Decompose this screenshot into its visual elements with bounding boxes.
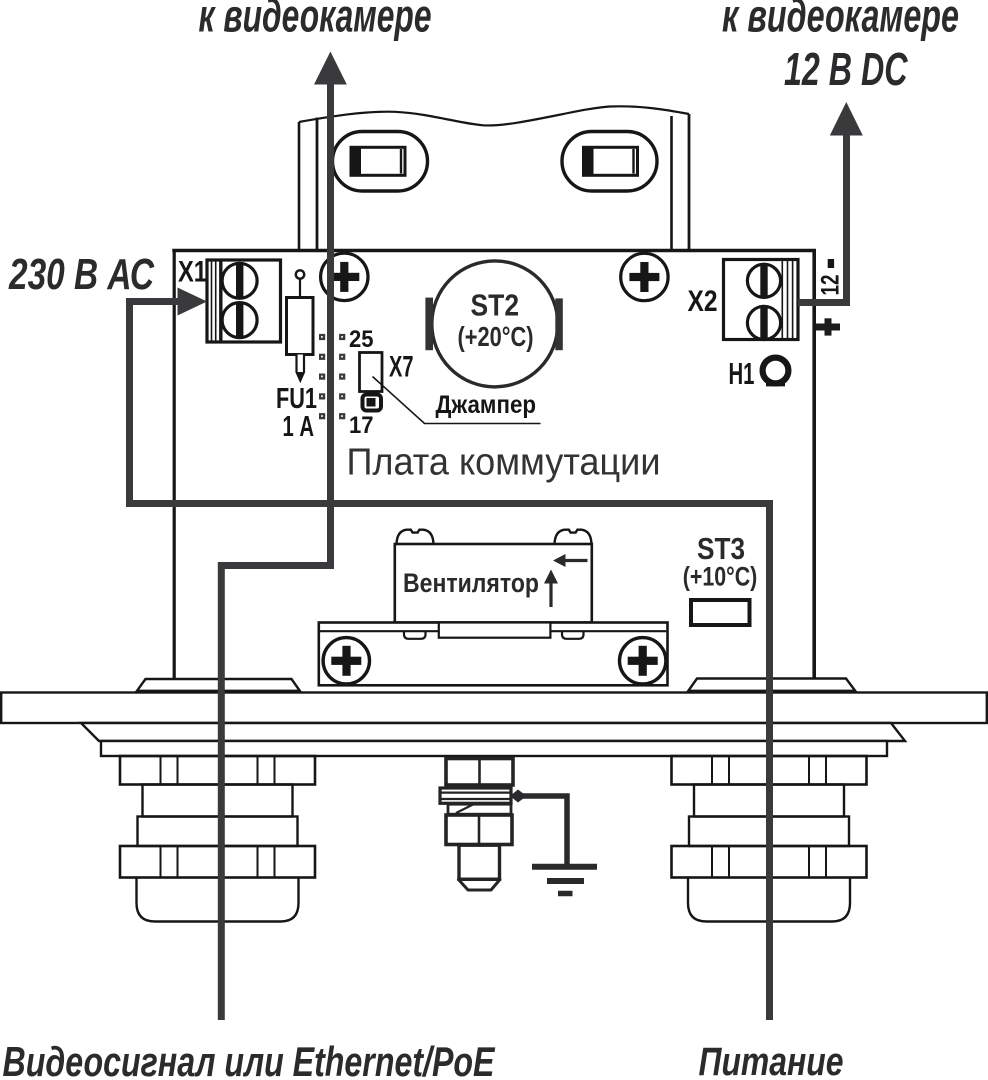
leader line to Джампер xyxy=(373,377,541,424)
thermostat ST2 xyxy=(425,261,562,387)
svg-text:ST2: ST2 xyxy=(471,288,520,323)
fuse FU1 xyxy=(287,270,314,380)
plate lip xyxy=(101,741,887,756)
terminal X2 block xyxy=(724,260,799,340)
camera bracket right edge lines xyxy=(670,116,673,250)
ground wire xyxy=(518,796,567,866)
svg-text:12: 12 xyxy=(817,275,845,296)
fan left arrow xyxy=(564,559,588,562)
board left edge / enclosure wall xyxy=(173,250,176,679)
svg-text:(+20°С): (+20°С) xyxy=(458,321,534,352)
svg-text:H1: H1 xyxy=(729,356,755,391)
fan bracket tab left xyxy=(404,631,426,639)
svg-text:Плата коммутации: Плата коммутации xyxy=(347,442,661,484)
pin header dots xyxy=(319,334,345,419)
bottom plate xyxy=(1,693,987,724)
ground lug diamond xyxy=(510,790,527,803)
fan up arrow xyxy=(549,583,552,607)
svg-text:230 В АС: 230 В АС xyxy=(8,250,155,299)
cable gland left xyxy=(120,756,315,922)
camera bracket top wavy outline xyxy=(299,106,689,125)
bracket slot right inner rect xyxy=(584,147,638,175)
LED H1 xyxy=(763,358,789,384)
svg-text:25: 25 xyxy=(349,326,374,353)
camera bracket left edge lines xyxy=(298,122,301,250)
foot right xyxy=(688,679,855,691)
board screw left xyxy=(321,253,368,300)
ground symbol xyxy=(532,864,597,870)
svg-text:Вентилятор: Вентилятор xyxy=(403,568,539,598)
fan bracket xyxy=(319,623,668,686)
svg-text:к видеокамере: к видеокамере xyxy=(199,0,432,42)
board top edge xyxy=(172,249,816,253)
svg-text:Видеосигнал или Ethernet/PoE: Видеосигнал или Ethernet/PoE xyxy=(3,1038,497,1080)
foot left xyxy=(137,679,300,691)
svg-text:12 В DC: 12 В DC xyxy=(784,43,908,95)
wire 12V DC xyxy=(798,133,847,303)
board screw right xyxy=(621,253,668,300)
bracket slot right (stadium) xyxy=(562,132,657,192)
wire to camera (video) xyxy=(221,82,330,1020)
svg-text:17: 17 xyxy=(349,412,374,439)
svg-text:к видеокамере: к видеокамере xyxy=(722,0,959,42)
svg-text:Джампер: Джампер xyxy=(436,391,537,419)
wire 230V AC (arrow into X1, down, along board bottom, down to gland) xyxy=(130,302,770,1021)
fan body xyxy=(395,544,592,623)
svg-text:X7: X7 xyxy=(389,351,414,384)
jumper X7 xyxy=(360,353,383,411)
screw fan-bracket left xyxy=(323,638,369,684)
svg-text:Питание: Питание xyxy=(699,1040,844,1080)
bracket slot left (stadium) xyxy=(333,132,428,192)
label + (plus) xyxy=(816,324,840,331)
svg-text:X2: X2 xyxy=(688,285,718,318)
bracket slot left inner rect xyxy=(351,147,405,175)
plate second layer xyxy=(81,723,905,741)
thermostat ST3 rect xyxy=(691,600,750,625)
board right edge / enclosure wall xyxy=(812,250,816,678)
svg-text:1 А: 1 А xyxy=(283,411,315,443)
fan bracket center plate xyxy=(439,623,551,638)
ground stud xyxy=(440,759,513,891)
screw fan-bracket right xyxy=(620,638,666,684)
terminal X1 block xyxy=(207,260,281,342)
svg-text:X1: X1 xyxy=(178,256,207,289)
fan bracket tab right xyxy=(562,631,584,639)
fan dome left xyxy=(397,530,434,544)
fan dome right xyxy=(555,530,592,544)
cable gland right xyxy=(672,756,867,922)
svg-text:(+10°С): (+10°С) xyxy=(683,562,758,592)
